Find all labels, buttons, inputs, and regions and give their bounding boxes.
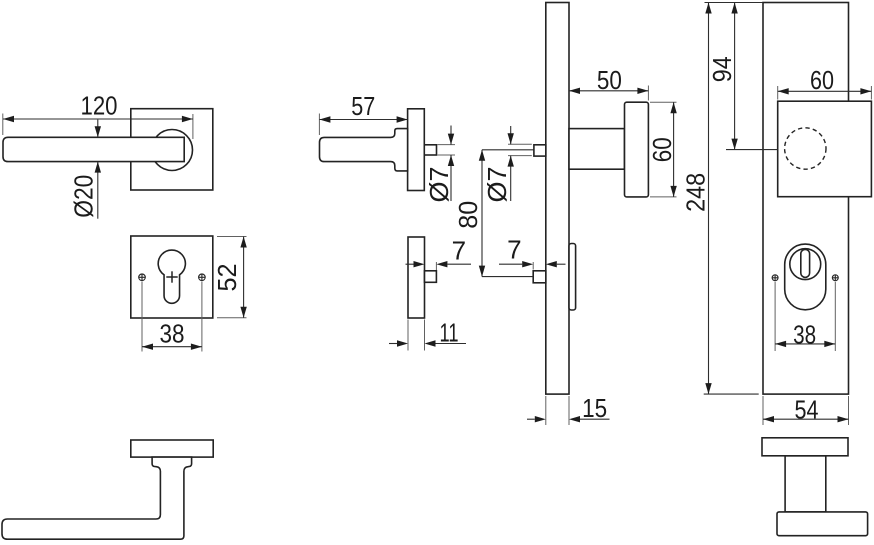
svg-text:7: 7: [507, 235, 521, 265]
svg-text:11: 11: [440, 317, 459, 347]
svg-text:248: 248: [680, 173, 710, 212]
svg-text:38: 38: [793, 319, 816, 349]
svg-text:60: 60: [647, 137, 677, 162]
svg-text:Ø7: Ø7: [482, 167, 512, 203]
svg-text:15: 15: [582, 393, 607, 423]
svg-text:7: 7: [452, 236, 466, 266]
svg-text:Ø20: Ø20: [68, 175, 98, 218]
svg-text:120: 120: [81, 91, 118, 121]
svg-text:57: 57: [351, 91, 375, 121]
svg-text:38: 38: [160, 319, 185, 349]
svg-text:54: 54: [795, 394, 819, 424]
svg-text:52: 52: [212, 264, 242, 292]
svg-text:80: 80: [453, 201, 483, 229]
svg-text:94: 94: [707, 56, 737, 82]
svg-text:Ø7: Ø7: [424, 167, 454, 203]
svg-text:60: 60: [810, 65, 834, 95]
svg-text:50: 50: [597, 65, 622, 95]
